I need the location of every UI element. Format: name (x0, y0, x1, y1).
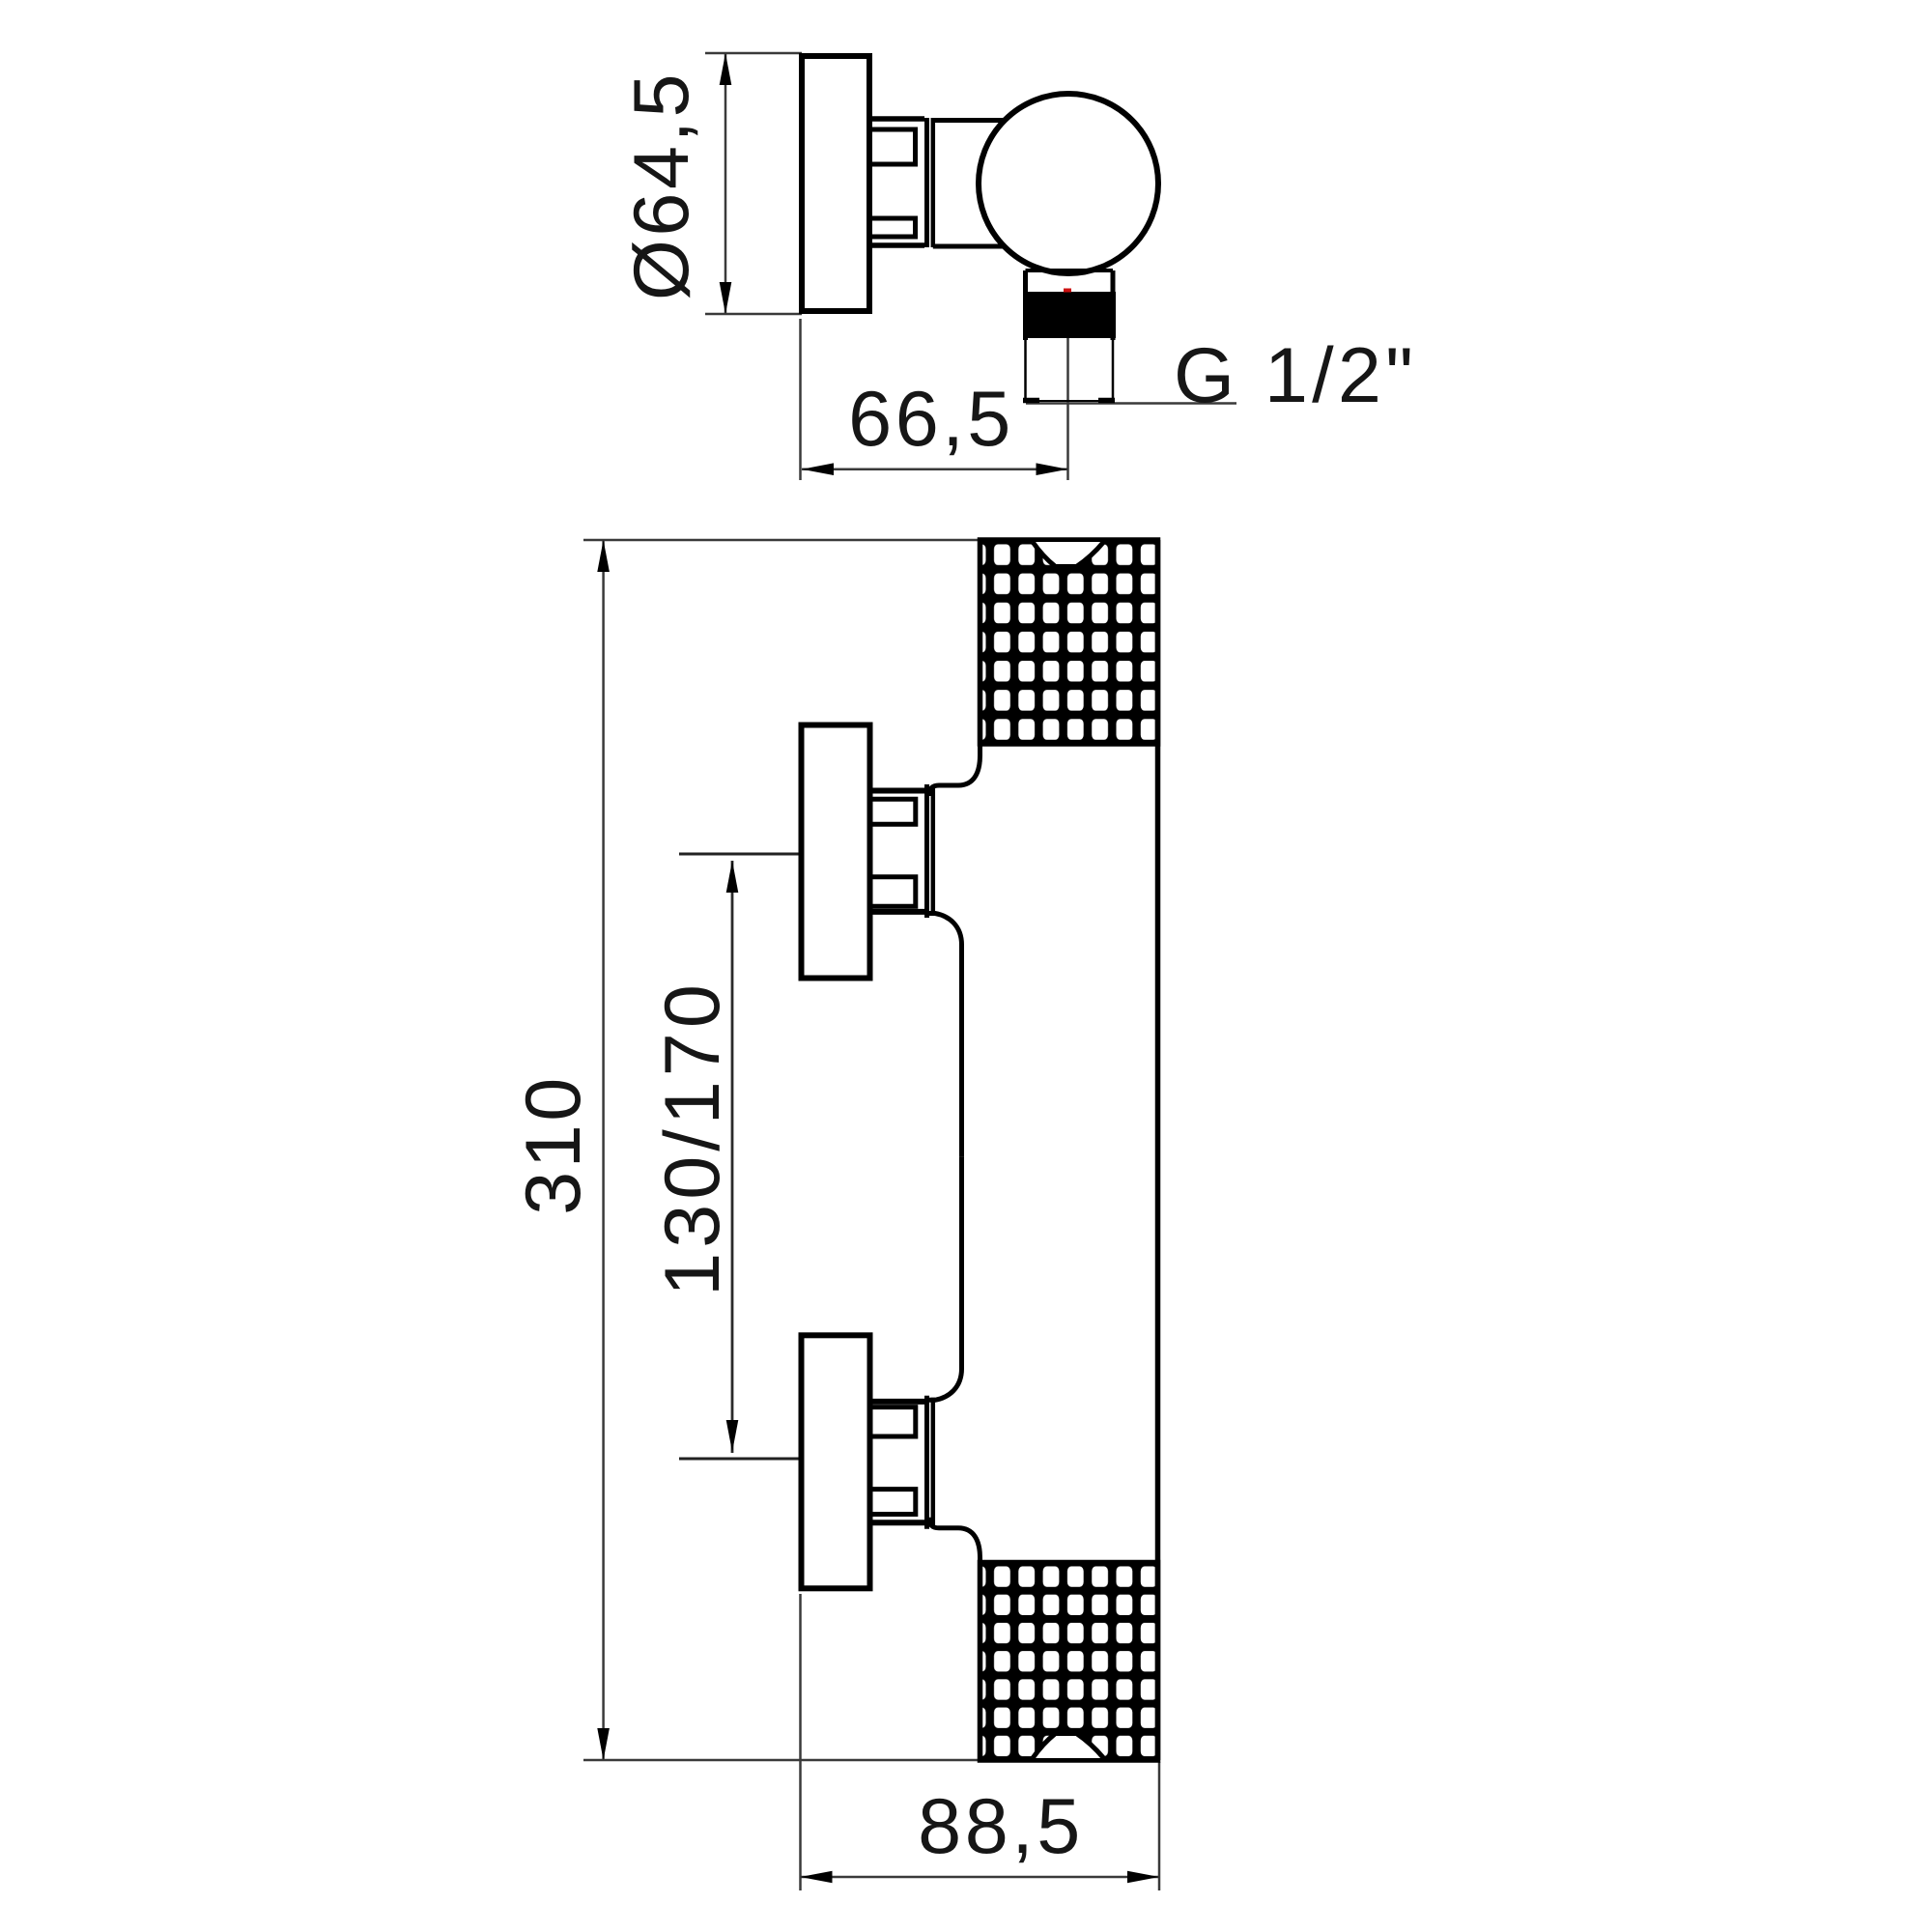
svg-text:310: 310 (510, 1074, 597, 1215)
svg-text:66,5: 66,5 (848, 376, 1014, 463)
svg-text:130/170: 130/170 (649, 980, 736, 1296)
svg-text:88,5: 88,5 (918, 1783, 1084, 1870)
svg-text:Ø64,5: Ø64,5 (618, 71, 705, 300)
svg-text:G 1/2": G 1/2" (1174, 332, 1417, 419)
